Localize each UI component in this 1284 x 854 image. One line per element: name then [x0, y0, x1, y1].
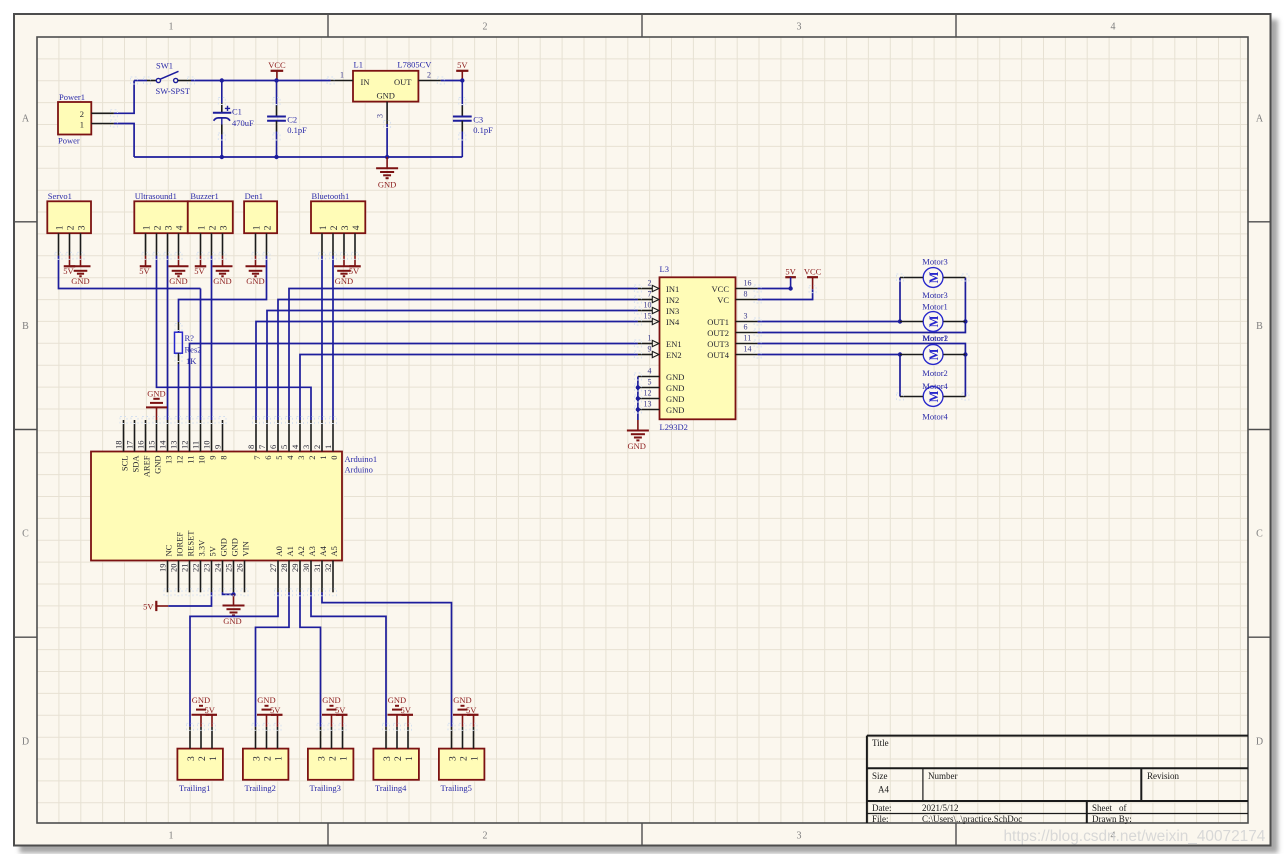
svg-text:Bluetooth1: Bluetooth1 — [312, 191, 350, 201]
L3 pin 7 (IN2) — [638, 299, 652, 301]
Arduino bottom pin 28 (A1) — [288, 561, 290, 593]
node 5V/C3 — [460, 78, 464, 82]
Arduino top pin 17 (SDA) — [134, 420, 136, 452]
svg-text:3: 3 — [448, 756, 458, 761]
svg-text:12: 12 — [644, 389, 652, 398]
wire L3.IN2 to Arduino 5 — [278, 300, 638, 421]
svg-text:IN4: IN4 — [666, 317, 680, 327]
svg-text:SDA: SDA — [130, 455, 140, 473]
wire Arduino GND pins 24-25 — [223, 592, 234, 594]
svg-text:B: B — [1256, 321, 1263, 332]
Arduino bottom pin 29 (A2) — [299, 561, 301, 593]
svg-text:25: 25 — [224, 564, 234, 573]
wire OUT3 — [758, 344, 966, 397]
connector Ultrasound1 — [134, 201, 188, 233]
svg-text:GND: GND — [152, 456, 162, 474]
Arduino bottom pin 25 (GND) — [233, 561, 235, 593]
svg-text:5V: 5V — [270, 705, 281, 715]
L3 pin 11 (OUT3) — [736, 343, 758, 345]
L3 pin 2 (IN1) — [638, 288, 652, 290]
L3 pin 1 (EN1) — [638, 343, 652, 345]
connector Trailing5 — [439, 749, 485, 780]
power port GND — [80, 256, 82, 266]
capacitor C1 — [221, 81, 223, 104]
svg-text:AREF: AREF — [141, 455, 151, 477]
svg-text:OUT3: OUT3 — [707, 339, 729, 349]
svg-text:32: 32 — [323, 564, 333, 573]
svg-text:Arduino1: Arduino1 — [345, 454, 378, 464]
wire L3.VC to VCC — [758, 289, 813, 299]
svg-text:VCC: VCC — [268, 60, 286, 70]
svg-text:OUT: OUT — [394, 77, 412, 87]
Arduino top pin 1 (0) — [332, 420, 334, 452]
svg-text:Motor4: Motor4 — [922, 412, 948, 422]
wire switch to VCC node — [191, 80, 277, 82]
power port 5V (Arduino 5V pin) — [155, 601, 157, 611]
svg-text:C1: C1 — [232, 107, 242, 117]
connector Servo1 — [47, 201, 91, 233]
node rail C1 — [220, 155, 224, 159]
wire L3.IN3 to Arduino 6 — [267, 311, 638, 421]
Arduino top pin 18 (SCL) — [123, 420, 125, 452]
svg-text:GND: GND — [388, 695, 406, 705]
node motor1 right — [963, 319, 967, 323]
power port 5V (Trailing4.1) — [402, 714, 414, 716]
svg-text:3: 3 — [744, 312, 748, 321]
svg-text:2: 2 — [263, 225, 273, 230]
Arduino bottom pin 31 (A4) — [321, 561, 323, 593]
wire L3.IN1 to Arduino 4 — [289, 289, 638, 421]
svg-text:C3: C3 — [473, 115, 483, 125]
svg-text:23: 23 — [202, 564, 212, 573]
Arduino top pin 12 (11) — [189, 420, 191, 452]
node motor2 left — [898, 352, 902, 356]
svg-text:L7805CV: L7805CV — [397, 60, 432, 70]
svg-text:Drawn By:: Drawn By: — [1092, 814, 1132, 824]
Arduino top pin 7 (6) — [266, 420, 268, 452]
svg-text:3: 3 — [797, 831, 802, 842]
svg-text:https://blog.csdn.net/weixin_4: https://blog.csdn.net/weixin_40072174 — [1004, 828, 1266, 845]
svg-text:6: 6 — [744, 323, 748, 332]
svg-text:3: 3 — [301, 445, 311, 449]
svg-text:1: 1 — [470, 756, 480, 761]
svg-text:1: 1 — [405, 756, 415, 761]
svg-text:M: M — [927, 315, 941, 327]
svg-text:EN1: EN1 — [666, 339, 682, 349]
svg-text:0.1pF: 0.1pF — [287, 125, 307, 135]
svg-text:19: 19 — [158, 564, 168, 573]
L3 pin 3 (OUT1) — [736, 321, 758, 323]
L3 pin 8 (VC) — [736, 299, 758, 301]
Arduino bottom pin 19 (NC) — [167, 561, 169, 593]
L3 pin 14 (OUT4) — [736, 354, 758, 356]
svg-text:2: 2 — [263, 756, 273, 761]
svg-text:GND: GND — [666, 394, 684, 404]
svg-text:1: 1 — [318, 456, 328, 460]
wire resistor to Arduino 12 — [178, 364, 180, 420]
node L3 VCC — [788, 286, 792, 290]
regulator U1 L7805CV — [353, 71, 418, 102]
motor Motor1 — [923, 312, 943, 332]
svg-text:Trailing1: Trailing1 — [179, 783, 210, 793]
power port VCC — [271, 70, 284, 72]
svg-text:2: 2 — [307, 456, 317, 460]
ground GND (power rail) — [386, 157, 388, 168]
node L3 GND pin 13 — [636, 407, 640, 411]
power port 5V (Trailing1.1) — [206, 714, 218, 716]
svg-text:Motor3: Motor3 — [922, 256, 948, 266]
L3 pin 16 (VCC) — [736, 288, 758, 290]
svg-text:GND: GND — [169, 276, 187, 286]
Arduino top pin 13 (12) — [178, 420, 180, 452]
svg-text:C2: C2 — [287, 115, 297, 125]
svg-text:6: 6 — [268, 445, 278, 449]
svg-text:GND: GND — [213, 276, 231, 286]
svg-text:VIN: VIN — [240, 541, 250, 556]
power port 5V — [145, 256, 147, 266]
capacitor C2 — [276, 81, 278, 106]
svg-text:12: 12 — [180, 441, 190, 450]
svg-text:22: 22 — [191, 564, 201, 573]
svg-text:5: 5 — [279, 445, 289, 449]
Arduino bottom pin 22 (3.3V) — [200, 561, 202, 593]
wire OUT4 — [758, 354, 900, 356]
wire Power1.2 to switch — [114, 81, 134, 114]
Arduino top pin 6 (5) — [277, 420, 279, 452]
svg-text:5V: 5V — [401, 705, 412, 715]
Arduino top pin 16 (AREF) — [145, 420, 147, 452]
svg-text:Trailing2: Trailing2 — [245, 783, 276, 793]
svg-text:L293D2: L293D2 — [660, 422, 688, 432]
svg-text:11: 11 — [744, 334, 752, 343]
wire L1.3 to bottom rail — [386, 124, 388, 157]
L3 pin 12 (GND) — [638, 398, 660, 400]
connector Trailing2 — [243, 749, 289, 780]
svg-text:1: 1 — [340, 71, 344, 80]
Arduino bottom pin 23 (5V) — [211, 561, 213, 593]
power port 5V (Trailing5.1) — [467, 714, 479, 716]
svg-text:Motor4: Motor4 — [922, 381, 948, 391]
svg-text:5V: 5V — [194, 266, 205, 276]
svg-text:5: 5 — [274, 456, 284, 460]
svg-text:IN2: IN2 — [666, 295, 679, 305]
L3 pin 9 (EN2) — [638, 354, 652, 356]
svg-text:IN3: IN3 — [666, 306, 679, 316]
svg-text:A: A — [1256, 114, 1264, 125]
svg-text:of: of — [1119, 803, 1127, 813]
svg-text:D: D — [22, 737, 29, 748]
svg-text:1: 1 — [274, 756, 284, 761]
svg-text:GND: GND — [246, 276, 264, 286]
svg-text:1: 1 — [169, 22, 174, 33]
svg-text:C: C — [22, 529, 29, 540]
svg-text:VCC: VCC — [804, 267, 822, 277]
svg-text:3: 3 — [219, 225, 229, 230]
wire rail motor2/motor4 left — [899, 355, 901, 397]
svg-text:EN2: EN2 — [666, 350, 682, 360]
wire Ultrasound1.3 to Arduino 13 — [167, 256, 169, 420]
svg-text:GND: GND — [335, 276, 353, 286]
svg-text:IN: IN — [361, 77, 370, 87]
svg-text:A1: A1 — [285, 546, 295, 556]
svg-text:2: 2 — [330, 225, 340, 230]
svg-text:0: 0 — [329, 456, 339, 460]
svg-text:8: 8 — [246, 445, 256, 449]
svg-text:Power1: Power1 — [59, 92, 85, 102]
svg-text:Motor1: Motor1 — [922, 302, 948, 312]
svg-text:2: 2 — [328, 756, 338, 761]
svg-text:9: 9 — [213, 445, 223, 449]
svg-text:1: 1 — [319, 225, 329, 230]
svg-text:1: 1 — [209, 756, 219, 761]
svg-text:Ultrasound1: Ultrasound1 — [135, 191, 177, 201]
svg-text:1: 1 — [648, 334, 652, 343]
svg-text:27: 27 — [268, 564, 278, 573]
svg-text:Trailing3: Trailing3 — [310, 783, 341, 793]
svg-text:1: 1 — [339, 756, 349, 761]
wire L1.2 to 5V node — [441, 80, 463, 82]
svg-text:A: A — [22, 114, 30, 125]
node rail C2 — [274, 155, 278, 159]
svg-text:15: 15 — [147, 441, 157, 450]
svg-text:6: 6 — [263, 456, 273, 460]
wire VCC node to L1.IN — [277, 80, 331, 82]
motor Motor3 — [923, 268, 943, 288]
svg-text:M: M — [927, 348, 941, 360]
svg-text:13: 13 — [644, 400, 652, 409]
svg-text:Size: Size — [872, 771, 888, 781]
svg-text:M: M — [927, 390, 941, 402]
svg-text:VCC: VCC — [712, 284, 730, 294]
svg-text:5V: 5V — [349, 266, 360, 276]
svg-text:2: 2 — [648, 279, 652, 288]
L3 pin 5 (GND) — [638, 387, 660, 389]
Arduino bottom pin 27 (A0) — [277, 561, 279, 593]
svg-text:2: 2 — [198, 756, 208, 761]
svg-text:Den1: Den1 — [245, 191, 263, 201]
svg-text:Power: Power — [58, 136, 80, 146]
svg-text:GND: GND — [322, 695, 340, 705]
svg-text:10: 10 — [644, 301, 652, 310]
svg-text:Buzzer1: Buzzer1 — [190, 191, 218, 201]
svg-text:Motor3: Motor3 — [922, 290, 948, 300]
Arduino top pin 3 (2) — [310, 420, 312, 452]
svg-text:GND: GND — [229, 538, 239, 556]
Arduino bottom pin 21 (RESET) — [189, 561, 191, 593]
wire L3.VCC to 5V — [758, 288, 791, 290]
node motor1 left — [898, 319, 902, 323]
svg-text:0.1pF: 0.1pF — [473, 125, 493, 135]
Arduino bottom pin 32 (A5) — [332, 561, 334, 593]
svg-text:8: 8 — [218, 456, 228, 460]
Arduino bottom pin 20 (IOREF) — [178, 561, 180, 593]
svg-text:A4: A4 — [318, 545, 328, 556]
svg-text:A5: A5 — [329, 546, 339, 556]
svg-text:14: 14 — [744, 345, 752, 354]
svg-text:13: 13 — [163, 456, 173, 465]
Power1 pin 2 — [91, 112, 114, 114]
node C1 top — [220, 78, 224, 82]
svg-text:Arduino: Arduino — [345, 465, 373, 475]
svg-text:Revision: Revision — [1147, 771, 1180, 781]
svg-text:GND: GND — [71, 276, 89, 286]
svg-text:VC: VC — [717, 295, 729, 305]
wire A4 to Trailing5 — [322, 592, 452, 727]
svg-text:IOREF: IOREF — [174, 532, 184, 557]
svg-text:2: 2 — [483, 831, 488, 842]
svg-text:RESET: RESET — [185, 530, 195, 557]
L1 pin 2 — [418, 80, 440, 82]
svg-text:OUT2: OUT2 — [707, 328, 729, 338]
L3 pin 13 (GND) — [638, 409, 660, 411]
wire L3 GND pins — [637, 377, 639, 421]
svg-text:20: 20 — [169, 564, 179, 573]
svg-text:SCL: SCL — [119, 456, 129, 472]
svg-text:11: 11 — [191, 441, 201, 449]
svg-text:NC: NC — [163, 544, 173, 556]
wire Power1.1 to bottom rail — [114, 124, 134, 158]
Arduino top pin 10 (9) — [211, 420, 213, 452]
svg-text:5: 5 — [648, 378, 652, 387]
node VCC/C2 — [274, 78, 278, 82]
power port 5V — [69, 256, 71, 266]
svg-text:1: 1 — [142, 225, 152, 230]
svg-text:31: 31 — [312, 564, 322, 573]
ground GND (L3) — [637, 420, 639, 431]
svg-text:5V: 5V — [207, 545, 217, 556]
svg-text:Servo1: Servo1 — [48, 191, 72, 201]
svg-text:5V: 5V — [457, 60, 468, 70]
power port GND — [222, 256, 224, 266]
Arduino top pin 14 (13) — [167, 420, 169, 452]
svg-text:OUT1: OUT1 — [707, 317, 729, 327]
svg-text:A3: A3 — [307, 546, 317, 556]
svg-text:3: 3 — [187, 756, 197, 761]
svg-text:2: 2 — [153, 225, 163, 230]
wire Ultrasound1.2 to Arduino 2 — [157, 256, 312, 420]
L3 pin 6 (OUT2) — [736, 332, 758, 334]
svg-text:2: 2 — [80, 109, 84, 119]
svg-text:L1: L1 — [354, 60, 363, 70]
svg-text:21: 21 — [180, 564, 190, 573]
Arduino top pin 8 (7) — [255, 420, 257, 452]
svg-text:4: 4 — [1111, 22, 1116, 33]
svg-text:8: 8 — [744, 290, 748, 299]
svg-text:2: 2 — [208, 225, 218, 230]
svg-text:9: 9 — [207, 456, 217, 460]
svg-text:2: 2 — [483, 22, 488, 33]
wire OUT1 — [758, 321, 900, 323]
svg-text:GND: GND — [192, 695, 210, 705]
svg-text:2: 2 — [427, 71, 431, 80]
Arduino top pin 15 (GND) — [156, 420, 158, 452]
connector Bluetooth1 — [311, 201, 365, 233]
Power1 pin 1 — [91, 123, 114, 125]
power port GND — [255, 256, 257, 266]
driver L3 L293D2 — [660, 277, 736, 419]
L3 pin 4 (GND) — [638, 376, 660, 378]
svg-text:Trailing5: Trailing5 — [441, 783, 472, 793]
svg-text:GND: GND — [147, 388, 165, 398]
motor Motor4 — [923, 387, 943, 407]
resistor R? Res2 1K — [178, 322, 180, 332]
svg-text:Number: Number — [928, 771, 958, 781]
svg-text:4: 4 — [648, 367, 652, 376]
svg-text:11: 11 — [185, 456, 195, 464]
svg-text:GND: GND — [666, 383, 684, 393]
svg-text:Motor2: Motor2 — [922, 368, 948, 378]
svg-text:A4: A4 — [878, 785, 889, 795]
svg-text:18: 18 — [114, 441, 124, 450]
svg-text:7: 7 — [257, 445, 267, 449]
svg-text:OUT4: OUT4 — [707, 350, 729, 360]
connector Power1 — [58, 102, 91, 135]
wire Servo1.1 to Arduino 10 — [59, 256, 201, 289]
svg-text:4: 4 — [175, 225, 185, 230]
svg-text:9: 9 — [648, 345, 652, 354]
motor Motor2 — [923, 345, 943, 365]
Arduino top pin 4 (3) — [299, 420, 301, 452]
svg-text:3: 3 — [77, 225, 87, 230]
svg-text:3: 3 — [296, 456, 306, 460]
Arduino bottom pin 30 (A3) — [310, 561, 312, 593]
svg-text:470uF: 470uF — [232, 118, 254, 128]
connector Den1 — [244, 201, 277, 233]
wire A3 to Trailing4 — [311, 592, 386, 727]
Arduino top pin 11 (10) — [200, 420, 202, 452]
svg-text:5V: 5V — [143, 602, 154, 612]
svg-text:1: 1 — [197, 225, 207, 230]
connector Trailing3 — [308, 749, 354, 780]
svg-text:2021/5/12: 2021/5/12 — [922, 803, 959, 813]
svg-text:5V: 5V — [785, 267, 796, 277]
svg-text:29: 29 — [290, 564, 300, 573]
svg-text:5V: 5V — [139, 266, 150, 276]
svg-text:GND: GND — [376, 91, 394, 101]
wire Bluetooth1.1 to Arduino 1 — [321, 256, 323, 420]
svg-text:GND: GND — [223, 616, 241, 626]
wire Buzzer1.2 to Arduino 9 — [211, 256, 213, 420]
power port 5V (Trailing2.1) — [271, 714, 283, 716]
L1 pin 3 — [386, 102, 388, 124]
L3 pin 15 (IN4) — [638, 321, 652, 323]
Arduino top pin 5 (4) — [288, 420, 290, 452]
wire OUT2 — [758, 278, 966, 333]
L1 pin 1 — [331, 80, 353, 82]
svg-text:15: 15 — [644, 312, 652, 321]
svg-text:B: B — [22, 321, 29, 332]
svg-text:17: 17 — [125, 441, 135, 450]
power port VCC (L3) — [807, 276, 818, 278]
ground GND (Arduino pins 24/25) — [233, 594, 235, 605]
node L3 GND pin 12 — [636, 396, 640, 400]
svg-text:2: 2 — [66, 225, 76, 230]
node L3 GND pin 5 — [636, 385, 640, 389]
wire L3.IN4 to Arduino 7 — [256, 322, 638, 421]
svg-text:3: 3 — [164, 225, 174, 230]
svg-text:1K: 1K — [186, 356, 197, 366]
power port 5V (Trailing3.1) — [336, 714, 348, 716]
svg-text:1: 1 — [252, 225, 262, 230]
capacitor C3 — [461, 81, 463, 106]
svg-text:SW-SPST: SW-SPST — [156, 86, 191, 96]
svg-text:1: 1 — [323, 445, 333, 449]
title block — [867, 735, 1248, 737]
svg-text:Trailing4: Trailing4 — [375, 783, 407, 793]
svg-text:7: 7 — [648, 290, 652, 299]
svg-text:26: 26 — [235, 564, 245, 573]
svg-text:4: 4 — [352, 225, 362, 230]
